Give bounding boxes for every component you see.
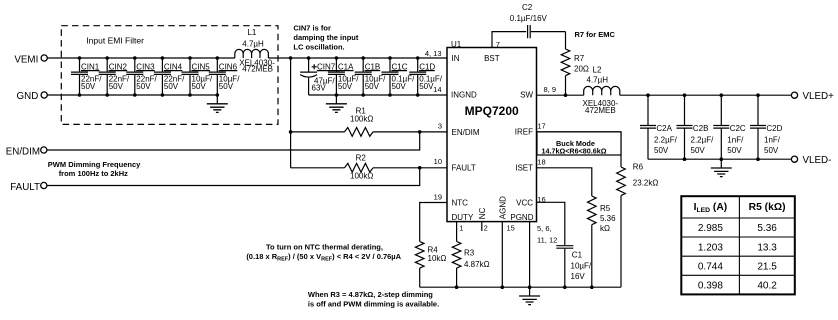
svg-text:NC: NC (478, 207, 487, 219)
svg-text:from 100Hz to 2kHz: from 100Hz to 2kHz (59, 169, 128, 178)
svg-text:R6: R6 (633, 162, 644, 171)
svg-text:SW: SW (520, 91, 533, 100)
note: When R3 = 4.87k (308, 290, 439, 309)
svg-text:FAULT: FAULT (452, 164, 476, 173)
IC U1 MPQ7200 (447, 40, 537, 222)
note: PWM dimming frequency (48, 160, 141, 178)
svg-text:MPQ7200: MPQ7200 (465, 104, 519, 118)
inductor L2 (583, 66, 620, 115)
resistor R3 (452, 242, 489, 288)
resistor R5 (588, 196, 617, 287)
svg-text:EN/DIM: EN/DIM (6, 146, 40, 157)
svg-text:50V: 50V (365, 82, 380, 91)
svg-text:50V: 50V (338, 82, 353, 91)
svg-text:CIN3: CIN3 (136, 62, 155, 71)
wire FAULT to jog (47, 168, 420, 186)
svg-text:0.744: 0.744 (698, 262, 723, 273)
junction dots GND rail (78, 93, 219, 97)
capacitor CIN3 (126, 58, 157, 95)
capacitor CIN6 (209, 58, 240, 95)
capacitor CIN1 (71, 58, 102, 95)
svg-text:50V: 50V (764, 146, 779, 155)
svg-text:50V: 50V (691, 146, 706, 155)
junction dots top rail (78, 56, 420, 60)
junction dots VLED+ rail (646, 93, 760, 97)
svg-text:INGND: INGND (451, 91, 477, 100)
note: NTC thermal derating (246, 243, 401, 263)
svg-text:50V: 50V (192, 82, 207, 91)
svg-text:BST: BST (484, 54, 500, 63)
svg-text:472MEB: 472MEB (585, 106, 616, 115)
svg-text:7: 7 (496, 40, 500, 49)
svg-text:CIN6: CIN6 (219, 62, 238, 71)
resistor R6 (617, 162, 659, 287)
svg-text:kΩ: kΩ (600, 224, 610, 233)
svg-text:4.7µH: 4.7µH (587, 75, 609, 84)
note: CIN7 is for damping (293, 24, 358, 52)
svg-text:4, 13: 4, 13 (425, 49, 442, 58)
svg-text:19: 19 (434, 192, 442, 201)
resistor R1 (291, 106, 447, 136)
junction dots C1-group rail (335, 93, 420, 97)
svg-text:4.7µH: 4.7µH (242, 39, 264, 48)
capacitor C2D (750, 95, 783, 159)
wire ISET to R5 (537, 168, 592, 196)
svg-text:2.2µF/: 2.2µF/ (654, 136, 678, 145)
svg-text:10: 10 (434, 157, 442, 166)
svg-text:C2B: C2B (693, 124, 709, 133)
svg-text:11, 12: 11, 12 (537, 236, 557, 245)
capacitor CIN7 (polarized) (300, 58, 339, 95)
terminal EN/DIM (6, 146, 47, 157)
svg-text:472MEB: 472MEB (242, 65, 273, 74)
svg-text:R2: R2 (356, 154, 367, 163)
resistor R2 (291, 154, 447, 181)
svg-text:8, 9: 8, 9 (544, 85, 557, 94)
capacitor CIN4 (154, 58, 185, 95)
junction dots R1/R2 lines (289, 130, 422, 170)
capacitor C1A (328, 58, 359, 95)
wire AGND (501, 222, 503, 288)
junction dot SW/R7 (564, 93, 568, 97)
svg-text:U1: U1 (451, 40, 462, 49)
svg-text:5.36: 5.36 (600, 214, 616, 223)
Buck Mode box (537, 132, 621, 156)
svg-text:is off and PWM dimming is avai: is off and PWM dimming is available. (308, 300, 439, 309)
svg-text:3: 3 (438, 121, 442, 130)
svg-text:C2D: C2D (766, 124, 782, 133)
svg-text:C2C: C2C (730, 124, 746, 133)
inductor L1 (235, 28, 275, 73)
terminal FAULT (10, 182, 47, 193)
svg-text:AGND: AGND (498, 196, 507, 219)
svg-text:13.3: 13.3 (757, 242, 777, 253)
junction dots bottom rail (455, 285, 594, 289)
dashed EMI filter box (61, 26, 278, 125)
wire IREF to R6 (537, 132, 622, 167)
svg-text:C2A: C2A (656, 124, 672, 133)
wire VEMI rail (47, 57, 447, 59)
svg-text:CIN7: CIN7 (317, 62, 336, 71)
svg-text:50V: 50V (419, 82, 434, 91)
svg-text:21.5: 21.5 (757, 262, 777, 273)
ground (under C1A) (326, 95, 347, 112)
svg-text:VCC: VCC (516, 198, 533, 207)
svg-text:10kΩ: 10kΩ (428, 254, 447, 263)
svg-text:40.2: 40.2 (757, 281, 777, 292)
capacitor C1C (382, 58, 416, 95)
svg-text:To turn on NTC thermal deratin: To turn on NTC thermal derating, (266, 243, 383, 252)
svg-text:50V: 50V (136, 82, 151, 91)
svg-text:R7 for EMC: R7 for EMC (575, 30, 616, 39)
svg-text:C2: C2 (522, 3, 533, 12)
svg-text:100kΩ: 100kΩ (350, 172, 373, 181)
junction dots VLED- rail (683, 157, 760, 161)
svg-text:5.36: 5.36 (757, 223, 777, 234)
svg-text:When R3 = 4.87kΩ, 2-step dimmi: When R3 = 4.87kΩ, 2-step dimming (308, 290, 433, 299)
svg-text:L2: L2 (593, 66, 602, 75)
svg-text:2.2µF/: 2.2µF/ (691, 136, 715, 145)
svg-text:14: 14 (433, 85, 441, 94)
svg-text:50V: 50V (654, 146, 669, 155)
ground (under VLED- rail) (711, 159, 732, 176)
svg-text:18: 18 (537, 157, 545, 166)
terminal VLED- (791, 155, 831, 166)
terminal VEMI (14, 54, 47, 65)
resistor R4 (415, 242, 446, 288)
svg-text:R3: R3 (464, 249, 475, 258)
terminal GND (17, 91, 48, 102)
svg-text:1nF/: 1nF/ (764, 136, 781, 145)
svg-text:C1: C1 (572, 251, 583, 260)
svg-text:VLED-: VLED- (803, 155, 832, 166)
wire bottom rail (420, 286, 621, 288)
capacitor C2A (640, 95, 678, 159)
svg-text:20Ω: 20Ω (574, 64, 589, 73)
svg-text:CIN4: CIN4 (164, 62, 183, 71)
svg-text:L1: L1 (247, 28, 256, 37)
wire NC stub (481, 222, 483, 231)
svg-text:2.985: 2.985 (698, 223, 723, 234)
svg-text:IREF: IREF (515, 127, 533, 136)
svg-text:R5 (kΩ): R5 (kΩ) (749, 202, 786, 213)
ground (EMI filter, under CIN6) (207, 95, 228, 112)
svg-text:EN/DIM: EN/DIM (452, 128, 480, 137)
svg-text:GND: GND (17, 91, 39, 102)
svg-text:4.87kΩ: 4.87kΩ (464, 260, 490, 269)
svg-text:PGND: PGND (510, 213, 533, 222)
svg-text:0.398: 0.398 (698, 281, 723, 292)
svg-text:Input EMI Filter: Input EMI Filter (86, 35, 144, 45)
svg-text:50V: 50V (219, 82, 234, 91)
wire R1/R2 pull-up vertical from VEMI rail (290, 58, 292, 168)
svg-text:CIN1: CIN1 (81, 62, 100, 71)
svg-text:16V: 16V (571, 272, 586, 281)
svg-text:14.7kΩ<R6<80.6kΩ: 14.7kΩ<R6<80.6kΩ (541, 147, 606, 156)
svg-text:2: 2 (484, 224, 488, 233)
wire C1-group ground rail (309, 94, 447, 96)
svg-text:CIN2: CIN2 (109, 62, 128, 71)
svg-text:ISET: ISET (515, 164, 533, 173)
ground (main, under PGND) (519, 296, 540, 305)
capacitor C2B (677, 95, 715, 159)
capacitor C1 (556, 246, 592, 288)
svg-text:1nF/: 1nF/ (727, 136, 744, 145)
wire VLED- rail (648, 158, 791, 160)
svg-text:5, 6,: 5, 6, (537, 224, 552, 233)
svg-text:C1A: C1A (338, 62, 354, 71)
svg-text:0.1µF/16V: 0.1µF/16V (510, 14, 548, 23)
wire EN/DIM to jog (47, 132, 420, 150)
svg-text:PWM Dimming Frequency: PWM Dimming Frequency (48, 160, 141, 169)
svg-text:10µF/: 10µF/ (571, 262, 592, 271)
wire SW (537, 94, 584, 96)
svg-text:23.2kΩ: 23.2kΩ (633, 178, 659, 187)
svg-text:C1C: C1C (392, 62, 408, 71)
svg-text:100kΩ: 100kΩ (350, 115, 373, 124)
svg-text:C1D: C1D (419, 62, 435, 71)
wire GND rail (47, 94, 217, 96)
svg-text:1.203: 1.203 (698, 242, 723, 253)
svg-text:IN: IN (452, 54, 460, 63)
svg-text:FAULT: FAULT (10, 182, 40, 193)
svg-text:C1B: C1B (365, 62, 381, 71)
svg-text:50V: 50V (109, 82, 124, 91)
capacitor C1B (355, 58, 386, 95)
svg-text:CIN7 is for: CIN7 is for (293, 24, 331, 33)
capacitor CIN2 (99, 58, 130, 95)
svg-text:damping the input: damping the input (293, 33, 358, 42)
svg-text:15: 15 (507, 224, 515, 233)
capacitor C2 (BST) (492, 3, 566, 48)
wire L2 to VLED+ (620, 94, 792, 96)
wire NTC to R4 (420, 203, 447, 242)
svg-text:DUTY: DUTY (452, 213, 474, 222)
resistor R7 (561, 32, 589, 96)
svg-text:63V: 63V (312, 84, 327, 93)
svg-text:R7: R7 (574, 54, 585, 63)
svg-text:R5: R5 (600, 204, 611, 213)
svg-text:17: 17 (537, 121, 545, 130)
capacitor C2C (713, 95, 746, 159)
capacitor C1D (409, 58, 443, 95)
svg-text:VEMI: VEMI (14, 54, 38, 65)
svg-text:VLED+: VLED+ (803, 91, 835, 102)
wire PGND (529, 222, 531, 296)
svg-text:50V: 50V (81, 82, 96, 91)
wire VCC to C1 (537, 202, 565, 245)
svg-text:NTC: NTC (452, 198, 469, 207)
wire DUTY to R3 (456, 222, 458, 242)
svg-text:50V: 50V (392, 82, 407, 91)
terminal VLED+ (791, 91, 834, 102)
svg-text:LC oscillation.: LC oscillation. (293, 42, 344, 51)
table ILED / R5 (681, 196, 795, 294)
capacitor CIN5 (182, 58, 213, 95)
svg-text:50V: 50V (727, 146, 742, 155)
svg-text:CIN5: CIN5 (192, 62, 211, 71)
svg-text:1: 1 (459, 224, 463, 233)
svg-text:50V: 50V (164, 82, 179, 91)
